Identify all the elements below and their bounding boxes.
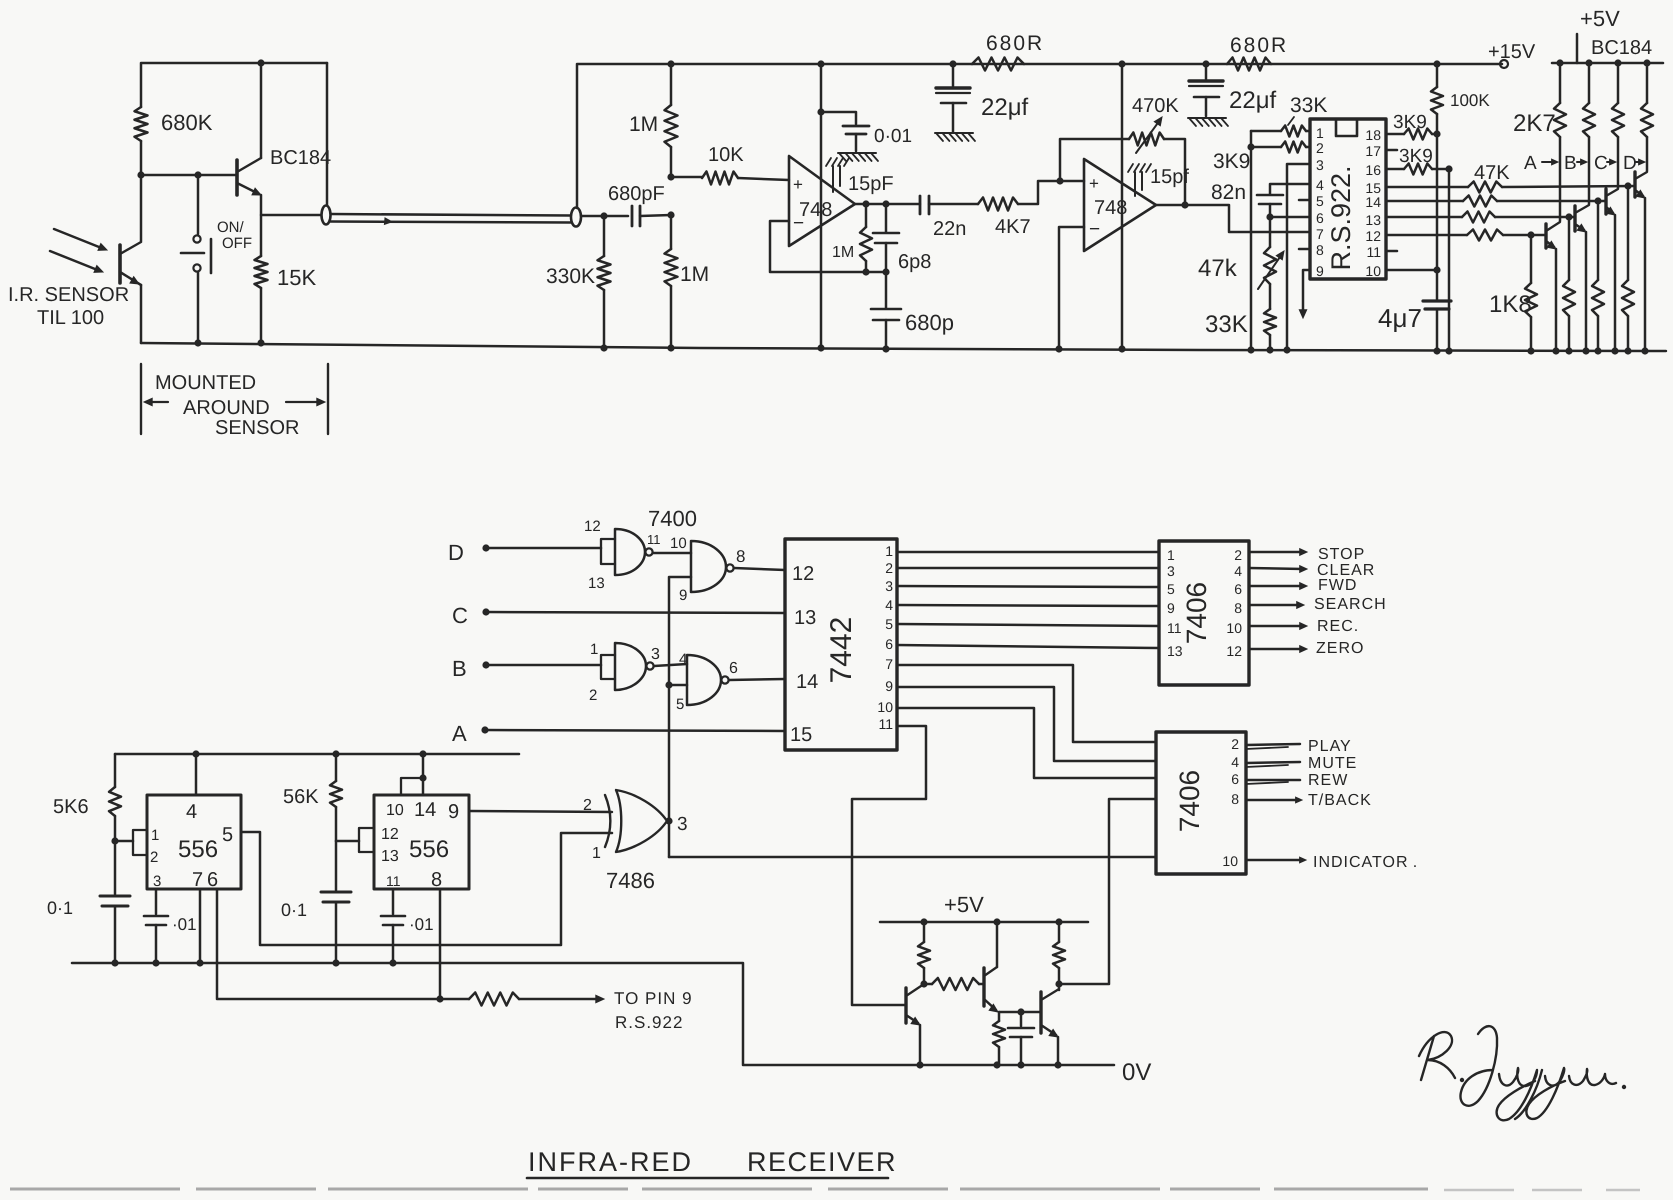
- svg-text:4: 4: [1234, 563, 1242, 579]
- wire 7442 pin1 to 7406 pin1: [897, 551, 1159, 554]
- svg-text:13: 13: [381, 848, 399, 865]
- wire 556#1 pin6 to divider: [217, 889, 469, 999]
- gate 7400 G3: [615, 643, 646, 690]
- svg-text:SEARCH: SEARCH: [1314, 596, 1387, 613]
- resistor 3K9 pin 16: [1386, 168, 1404, 171]
- IC 7406 second body: [1156, 732, 1246, 874]
- svg-text:0·1: 0·1: [47, 898, 73, 918]
- svg-text:9: 9: [1316, 263, 1324, 279]
- wire +5V rail: [1552, 62, 1663, 65]
- svg-text:330K: 330K: [546, 265, 595, 288]
- wire top rail of sensor block: [141, 63, 327, 107]
- svg-text:3: 3: [1316, 157, 1324, 173]
- gate 7400 G1 input bracket: [601, 539, 615, 564]
- svg-text:12: 12: [1226, 643, 1242, 659]
- resistor 2K7 line A: [1559, 63, 1562, 103]
- resistor line B: [1588, 63, 1591, 103]
- capacitor 4u7: [1436, 270, 1439, 300]
- svg-text:8: 8: [1234, 600, 1242, 616]
- svg-text:TIL 100: TIL 100: [37, 307, 104, 329]
- resistor 3K9 into pin 2: [1251, 146, 1281, 149]
- capacitor 22uF second: [1205, 64, 1208, 79]
- capacitor 15pF compensation op-amp 1: [826, 158, 831, 166]
- capacitor 680p to ground: [885, 272, 888, 308]
- svg-text:22μf: 22μf: [1229, 87, 1277, 114]
- svg-text:6: 6: [1234, 581, 1242, 597]
- resistor Q1-Q2 coupling: [920, 980, 927, 987]
- svg-text:2: 2: [1234, 547, 1242, 563]
- switch ON/OFF: [197, 175, 200, 234]
- wire 556 top rail: [115, 753, 519, 756]
- svg-text:33K: 33K: [1205, 311, 1248, 338]
- potentiometer 470K: [1129, 133, 1164, 146]
- svg-text:82n: 82n: [1211, 181, 1246, 204]
- wire XOR output to 7406#2 indicator input: [669, 856, 1156, 859]
- wire output PLAY: [1246, 744, 1300, 745]
- svg-text:12: 12: [792, 563, 814, 585]
- svg-text:15pf: 15pf: [1150, 166, 1189, 188]
- svg-text:0V: 0V: [1122, 1059, 1151, 1086]
- svg-text:0·01: 0·01: [874, 126, 912, 147]
- svg-text:680R: 680R: [986, 32, 1044, 55]
- resistor 1M lower: [667, 173, 674, 180]
- svg-text:ZERO: ZERO: [1316, 640, 1364, 657]
- svg-text:A: A: [452, 721, 467, 746]
- svg-text:2: 2: [885, 560, 893, 576]
- svg-text:BC184: BC184: [270, 147, 331, 169]
- svg-text:11: 11: [386, 873, 401, 889]
- wire 556#2 pin8 down: [439, 889, 442, 999]
- svg-text:680R: 680R: [1230, 34, 1288, 57]
- gate 7400 G3 input bracket: [601, 655, 615, 679]
- svg-text:FWD: FWD: [1318, 577, 1357, 594]
- resistor base pulldown D: [1627, 186, 1630, 280]
- svg-text:680K: 680K: [161, 110, 213, 135]
- wire input B: [482, 661, 489, 668]
- stub pin 17: [1386, 149, 1397, 152]
- svg-text:680p: 680p: [905, 310, 954, 335]
- resistor base pulldown C: [1597, 201, 1600, 280]
- resistor 3K9 pin 18: [1386, 133, 1404, 136]
- svg-text:12: 12: [584, 518, 601, 535]
- svg-text:1: 1: [1316, 125, 1324, 141]
- svg-text:6: 6: [885, 636, 893, 652]
- jumper 556#2 pins 10-14: [401, 778, 423, 795]
- svg-text:3: 3: [153, 873, 161, 890]
- svg-text:7442: 7442: [825, 617, 858, 684]
- svg-text:7: 7: [1316, 226, 1324, 242]
- wire pin 9 from below: [1303, 270, 1310, 314]
- wire G1 to G2: [653, 552, 691, 555]
- wire pin 6: [1270, 216, 1310, 219]
- svg-text:8: 8: [736, 547, 745, 566]
- resistor 330K: [603, 216, 606, 256]
- svg-text:7406: 7406: [1174, 770, 1205, 832]
- wire 7442 pin6 to 7406 pin13: [897, 645, 1159, 648]
- svg-text:SENSOR: SENSOR: [215, 417, 299, 439]
- svg-text:+5V: +5V: [944, 892, 984, 917]
- svg-text:15: 15: [790, 724, 812, 746]
- svg-text:9: 9: [679, 587, 687, 604]
- svg-text:MUTE: MUTE: [1308, 755, 1357, 772]
- svg-text:15K: 15K: [277, 265, 316, 290]
- svg-text:AROUND: AROUND: [183, 397, 270, 419]
- svg-text:12: 12: [381, 826, 399, 843]
- svg-text:13: 13: [794, 607, 816, 629]
- svg-text:7406: 7406: [1181, 582, 1212, 644]
- svg-text:INFRA-RED: INFRA-RED: [528, 1147, 693, 1177]
- svg-text:12: 12: [1365, 228, 1381, 244]
- svg-text:BC184: BC184: [1591, 37, 1652, 59]
- svg-text:4: 4: [885, 597, 893, 613]
- wire 556#1 pin7 to ground: [199, 889, 202, 963]
- wire pin 10: [1386, 269, 1437, 272]
- svg-text:R.S.922.: R.S.922.: [1326, 165, 1356, 270]
- resistor to pin 9: [469, 993, 519, 1006]
- svg-text:556: 556: [178, 836, 218, 863]
- wire pin16 pull line to ground: [1448, 169, 1451, 351]
- svg-text:4: 4: [679, 651, 687, 668]
- capacitor emitter filter: [1020, 1012, 1023, 1026]
- wire G2 output to 7442 pin 12: [734, 568, 785, 570]
- wire input C: [482, 608, 489, 615]
- svg-text:3: 3: [885, 578, 893, 594]
- svg-text:10: 10: [1222, 853, 1238, 869]
- resistor 1M feedback: [865, 204, 868, 227]
- stub pin 5: [1299, 199, 1310, 202]
- svg-text:556: 556: [409, 836, 449, 863]
- scan edge line: [10, 1188, 1428, 1191]
- svg-text:5: 5: [1316, 193, 1324, 209]
- svg-text:OFF: OFF: [222, 235, 252, 252]
- svg-text:8: 8: [1231, 791, 1239, 807]
- svg-text:11: 11: [1366, 244, 1381, 260]
- capacitor .01 first: [155, 889, 158, 914]
- svg-text:4: 4: [1231, 754, 1239, 770]
- wire 15K to ground rail: [260, 288, 263, 343]
- svg-text:+15V: +15V: [1488, 41, 1536, 63]
- wire 7442 pin3 to 7406 pin5: [897, 586, 1159, 587]
- svg-text:1: 1: [151, 827, 159, 844]
- wire G4 output to 7442 pin 14: [729, 679, 785, 680]
- phototransistor TIL100 I.R. sensor: [118, 245, 122, 283]
- wire op-amp1 output: [855, 203, 920, 206]
- svg-text:6: 6: [1231, 771, 1239, 787]
- IC R.S.922 body: [1310, 119, 1386, 279]
- capacitor 15pF compensation op-amp 2: [1128, 164, 1133, 172]
- svg-text:2K7: 2K7: [1513, 110, 1556, 137]
- wire top rail drop to connector: [326, 63, 329, 205]
- wire output STOP: [1249, 551, 1303, 554]
- capacitor 680pF (series): [631, 206, 634, 226]
- svg-text:REW: REW: [1308, 772, 1348, 789]
- wire 556#1 pin5 to 7486 input 1: [241, 832, 612, 945]
- svg-text:22n: 22n: [933, 218, 966, 240]
- svg-text:470K: 470K: [1132, 95, 1179, 117]
- svg-text:0·1: 0·1: [281, 900, 307, 920]
- svg-text:17: 17: [1365, 143, 1381, 159]
- wire 7442 pin11 to driver base: [852, 726, 926, 1005]
- svg-text:3: 3: [677, 814, 688, 835]
- svg-text:47k: 47k: [1198, 255, 1238, 282]
- resistor 680R second: [1227, 58, 1271, 71]
- IC notch: [1336, 119, 1357, 136]
- svg-text:MOUNTED: MOUNTED: [155, 372, 256, 394]
- wire G3 to G4: [654, 664, 687, 666]
- wire Q2 emitter to Q3 base: [999, 1011, 1041, 1014]
- wire feedback to 470K pot: [1056, 177, 1063, 184]
- capacitor 0.01 branch to ground: [817, 108, 824, 115]
- svg-text:4K7: 4K7: [995, 216, 1031, 238]
- svg-text:3K9: 3K9: [1399, 146, 1433, 167]
- gate 7400 G2: [691, 541, 726, 592]
- svg-text:2: 2: [589, 687, 597, 704]
- terminal +15V: [1500, 60, 1508, 68]
- resistor 5K6: [114, 754, 117, 787]
- resistor 33K lower: [1269, 284, 1272, 309]
- svg-text:+5V: +5V: [1580, 6, 1620, 31]
- svg-text:1: 1: [592, 845, 601, 862]
- svg-text:6: 6: [207, 869, 218, 891]
- svg-text:10: 10: [1226, 620, 1242, 636]
- svg-text:+: +: [793, 175, 803, 194]
- signature R. Duggan: [1419, 1032, 1455, 1080]
- stub pin 8: [1299, 248, 1310, 251]
- svg-text:1M: 1M: [629, 113, 658, 136]
- capacitor 22n (series): [919, 196, 922, 214]
- wire emitter column: [260, 195, 263, 256]
- svg-text:4μ7: 4μ7: [1378, 303, 1422, 333]
- svg-text:C: C: [1594, 153, 1608, 174]
- wire output MUTE: [1246, 762, 1300, 763]
- wire 680K to base node: [140, 141, 143, 241]
- connector oval left: [322, 206, 331, 225]
- resistor 47K pin 15 line: [1386, 186, 1468, 189]
- resistor Q1 collector load: [923, 922, 926, 942]
- terminal +5V: [1576, 34, 1579, 63]
- svg-text:47K: 47K: [1474, 162, 1510, 184]
- gate 7400 G1 (NAND as inverter): [615, 529, 645, 575]
- svg-text:4: 4: [1316, 177, 1324, 193]
- resistor 1M upper: [670, 64, 673, 105]
- wire 7442 pin10 to 7406#2: [897, 708, 1156, 778]
- svg-text:6: 6: [729, 660, 738, 677]
- svg-text:1: 1: [885, 543, 893, 559]
- svg-text:680pF: 680pF: [608, 183, 665, 205]
- svg-text:9: 9: [1167, 600, 1175, 616]
- svg-text:14: 14: [796, 671, 818, 693]
- transistor Q1 driver: [904, 988, 907, 1023]
- wire connector to coupling cap: [581, 215, 628, 218]
- wire output INDICATOR: [1246, 859, 1302, 862]
- svg-text:2: 2: [1316, 140, 1324, 156]
- wire 556#1 pin4 to rail: [195, 754, 198, 795]
- wire output FWD: [1249, 585, 1303, 588]
- svg-text:+: +: [1089, 174, 1099, 193]
- svg-text:B: B: [1564, 153, 1577, 174]
- svg-text:2: 2: [1231, 736, 1239, 752]
- svg-text:33K: 33K: [1290, 94, 1327, 117]
- svg-text:3K9: 3K9: [1393, 112, 1427, 133]
- op-amp U1 748: [789, 156, 855, 246]
- capacitor .01 second: [392, 889, 395, 914]
- svg-text:D: D: [448, 540, 464, 565]
- svg-text:TO PIN 9: TO PIN 9: [614, 989, 693, 1008]
- svg-text:3K9: 3K9: [1213, 150, 1250, 173]
- svg-text:56K: 56K: [283, 786, 319, 808]
- svg-text:I.R. SENSOR: I.R. SENSOR: [8, 284, 129, 306]
- svg-text:5: 5: [222, 824, 233, 846]
- wire 7442 pin5 to 7406 pin11: [897, 624, 1159, 626]
- svg-text:7: 7: [192, 869, 203, 891]
- svg-text:ON/: ON/: [217, 219, 245, 236]
- transistor Q3 driver: [1039, 992, 1042, 1033]
- wire feedback loop op-amp1: [770, 221, 886, 272]
- svg-text:1: 1: [1167, 547, 1175, 563]
- svg-text:1K8: 1K8: [1489, 291, 1532, 318]
- wire 7486 output to G2 pin9 and G4 pin5: [669, 577, 691, 857]
- wire input D: [482, 544, 489, 551]
- svg-text:14: 14: [1365, 194, 1381, 210]
- wire emitter output to connector: [261, 214, 321, 217]
- capacitor 0.1 first: [114, 841, 117, 894]
- resistor 680R first: [972, 58, 1024, 71]
- resistor 15K: [255, 256, 268, 288]
- wire +15V top rail: [577, 64, 1502, 208]
- connector oval right: [571, 208, 581, 227]
- svg-text:7486: 7486: [606, 868, 655, 893]
- resistor 100K: [1436, 64, 1439, 87]
- wire 556#2 pin9 to 7486 input 2: [469, 811, 612, 812]
- svg-text:B: B: [452, 656, 467, 681]
- wire output CLEAR: [1249, 568, 1303, 569]
- stub pin 11: [1386, 250, 1397, 253]
- resistor base pulldown B: [1568, 217, 1571, 280]
- svg-text:R.S.922: R.S.922: [615, 1013, 683, 1032]
- svg-text:1M: 1M: [680, 263, 709, 286]
- supply line through op-amp 2: [1121, 64, 1124, 349]
- wire op-amp2 output to R.S.922 pin 7: [1156, 205, 1310, 232]
- svg-text:10: 10: [386, 802, 404, 819]
- wire 7442 pin4 to 7406 pin9: [897, 605, 1159, 606]
- bracket 556#1 pins 1-2: [133, 830, 147, 855]
- svg-text:11: 11: [647, 532, 661, 547]
- wire Q2 collector to rail: [996, 922, 999, 967]
- svg-text:14: 14: [414, 799, 436, 821]
- svg-text:C: C: [452, 603, 468, 628]
- svg-text:10K: 10K: [708, 144, 744, 166]
- title underline: [527, 1177, 888, 1180]
- svg-text:3: 3: [651, 646, 660, 663]
- transistor QA: [1544, 224, 1547, 248]
- svg-text:22μf: 22μf: [981, 94, 1029, 121]
- wire output SEARCH: [1249, 604, 1300, 607]
- resistor Q3 collector load: [1058, 922, 1061, 942]
- svg-text:16: 16: [1365, 162, 1381, 178]
- resistor 47K pin 14 line: [1386, 200, 1463, 203]
- svg-text:10: 10: [877, 699, 893, 715]
- capacitor 0.1 second: [335, 841, 338, 890]
- transistor BC184 (sensor buffer): [235, 160, 239, 195]
- wire output REC.: [1249, 625, 1303, 628]
- gate 7400 G4: [687, 655, 721, 705]
- svg-text:7: 7: [885, 656, 893, 672]
- wire left bias line to ground: [1250, 131, 1253, 350]
- capacitor 6p8: [885, 204, 888, 232]
- svg-text:9: 9: [885, 678, 893, 694]
- resistor 4K7: [978, 198, 1018, 211]
- bracket 556#2 pins 12-13: [359, 828, 374, 852]
- wire output REW: [1246, 779, 1300, 782]
- svg-text:5K6: 5K6: [53, 796, 89, 818]
- resistor 33K into pin 1: [1251, 130, 1281, 133]
- resistor 680K: [135, 107, 148, 141]
- capacitor 82n pin4-pin6: [1270, 184, 1310, 194]
- svg-text:13: 13: [588, 575, 605, 592]
- dimension marks MOUNTED AROUND SENSOR: [140, 364, 142, 434]
- wire Q3 collector to 7406#2 input: [1059, 799, 1156, 984]
- IC 556 second body: [374, 795, 469, 889]
- svg-text:9: 9: [448, 801, 459, 823]
- wire output ZERO: [1249, 648, 1303, 651]
- svg-text:5: 5: [676, 696, 684, 713]
- wire op-amp2 minus input to ground: [1059, 227, 1084, 349]
- transistor QB: [1573, 206, 1576, 231]
- resistor line C: [1617, 63, 1620, 103]
- svg-text:REC.: REC.: [1317, 618, 1359, 635]
- wire pin 3 to ground: [1287, 164, 1310, 350]
- wire output T/BACK: [1246, 799, 1298, 802]
- IC 7442 body: [785, 539, 897, 750]
- potentiometer 47k: [1269, 217, 1272, 247]
- svg-text:·01: ·01: [172, 915, 197, 934]
- svg-text:7400: 7400: [648, 506, 697, 531]
- svg-text:6p8: 6p8: [898, 251, 931, 273]
- light arrows into sensor: [54, 229, 104, 249]
- wire ground bottom rail: [141, 343, 1666, 351]
- svg-text:·01: ·01: [409, 915, 434, 934]
- resistor 1K8 base pulldown A: [1530, 235, 1533, 283]
- svg-text:15pF: 15pF: [848, 173, 894, 195]
- svg-text:−: −: [1089, 219, 1100, 240]
- wire 7442 pin2 to 7406 pin3: [897, 567, 1159, 570]
- svg-text:5: 5: [1167, 581, 1175, 597]
- svg-text:1M: 1M: [832, 244, 854, 261]
- svg-text:748: 748: [799, 199, 832, 221]
- resistor 47K pin 13 line: [1386, 216, 1462, 219]
- svg-text:6: 6: [1316, 210, 1324, 226]
- transistor QD: [1633, 172, 1636, 197]
- svg-text:3: 3: [1167, 563, 1175, 579]
- svg-text:STOP: STOP: [1318, 546, 1365, 563]
- svg-text:T/BACK: T/BACK: [1308, 792, 1372, 809]
- svg-text:13: 13: [1167, 643, 1183, 659]
- svg-text:8: 8: [431, 869, 442, 891]
- svg-text:10: 10: [670, 535, 687, 552]
- resistor Q2 emitter: [998, 1012, 1001, 1021]
- gate 7486 XOR: [605, 795, 610, 847]
- svg-text:10: 10: [1365, 263, 1381, 279]
- svg-text:8: 8: [1316, 242, 1324, 258]
- svg-text:5: 5: [885, 616, 893, 632]
- svg-text:A: A: [1524, 153, 1537, 174]
- resistor 56K: [335, 754, 338, 781]
- wire +5V sub rail: [880, 921, 1088, 924]
- resistor 10K: [671, 176, 702, 179]
- svg-text:11: 11: [878, 716, 893, 732]
- resistor 47K pin 12 line: [1386, 234, 1467, 237]
- svg-text:18: 18: [1365, 127, 1381, 143]
